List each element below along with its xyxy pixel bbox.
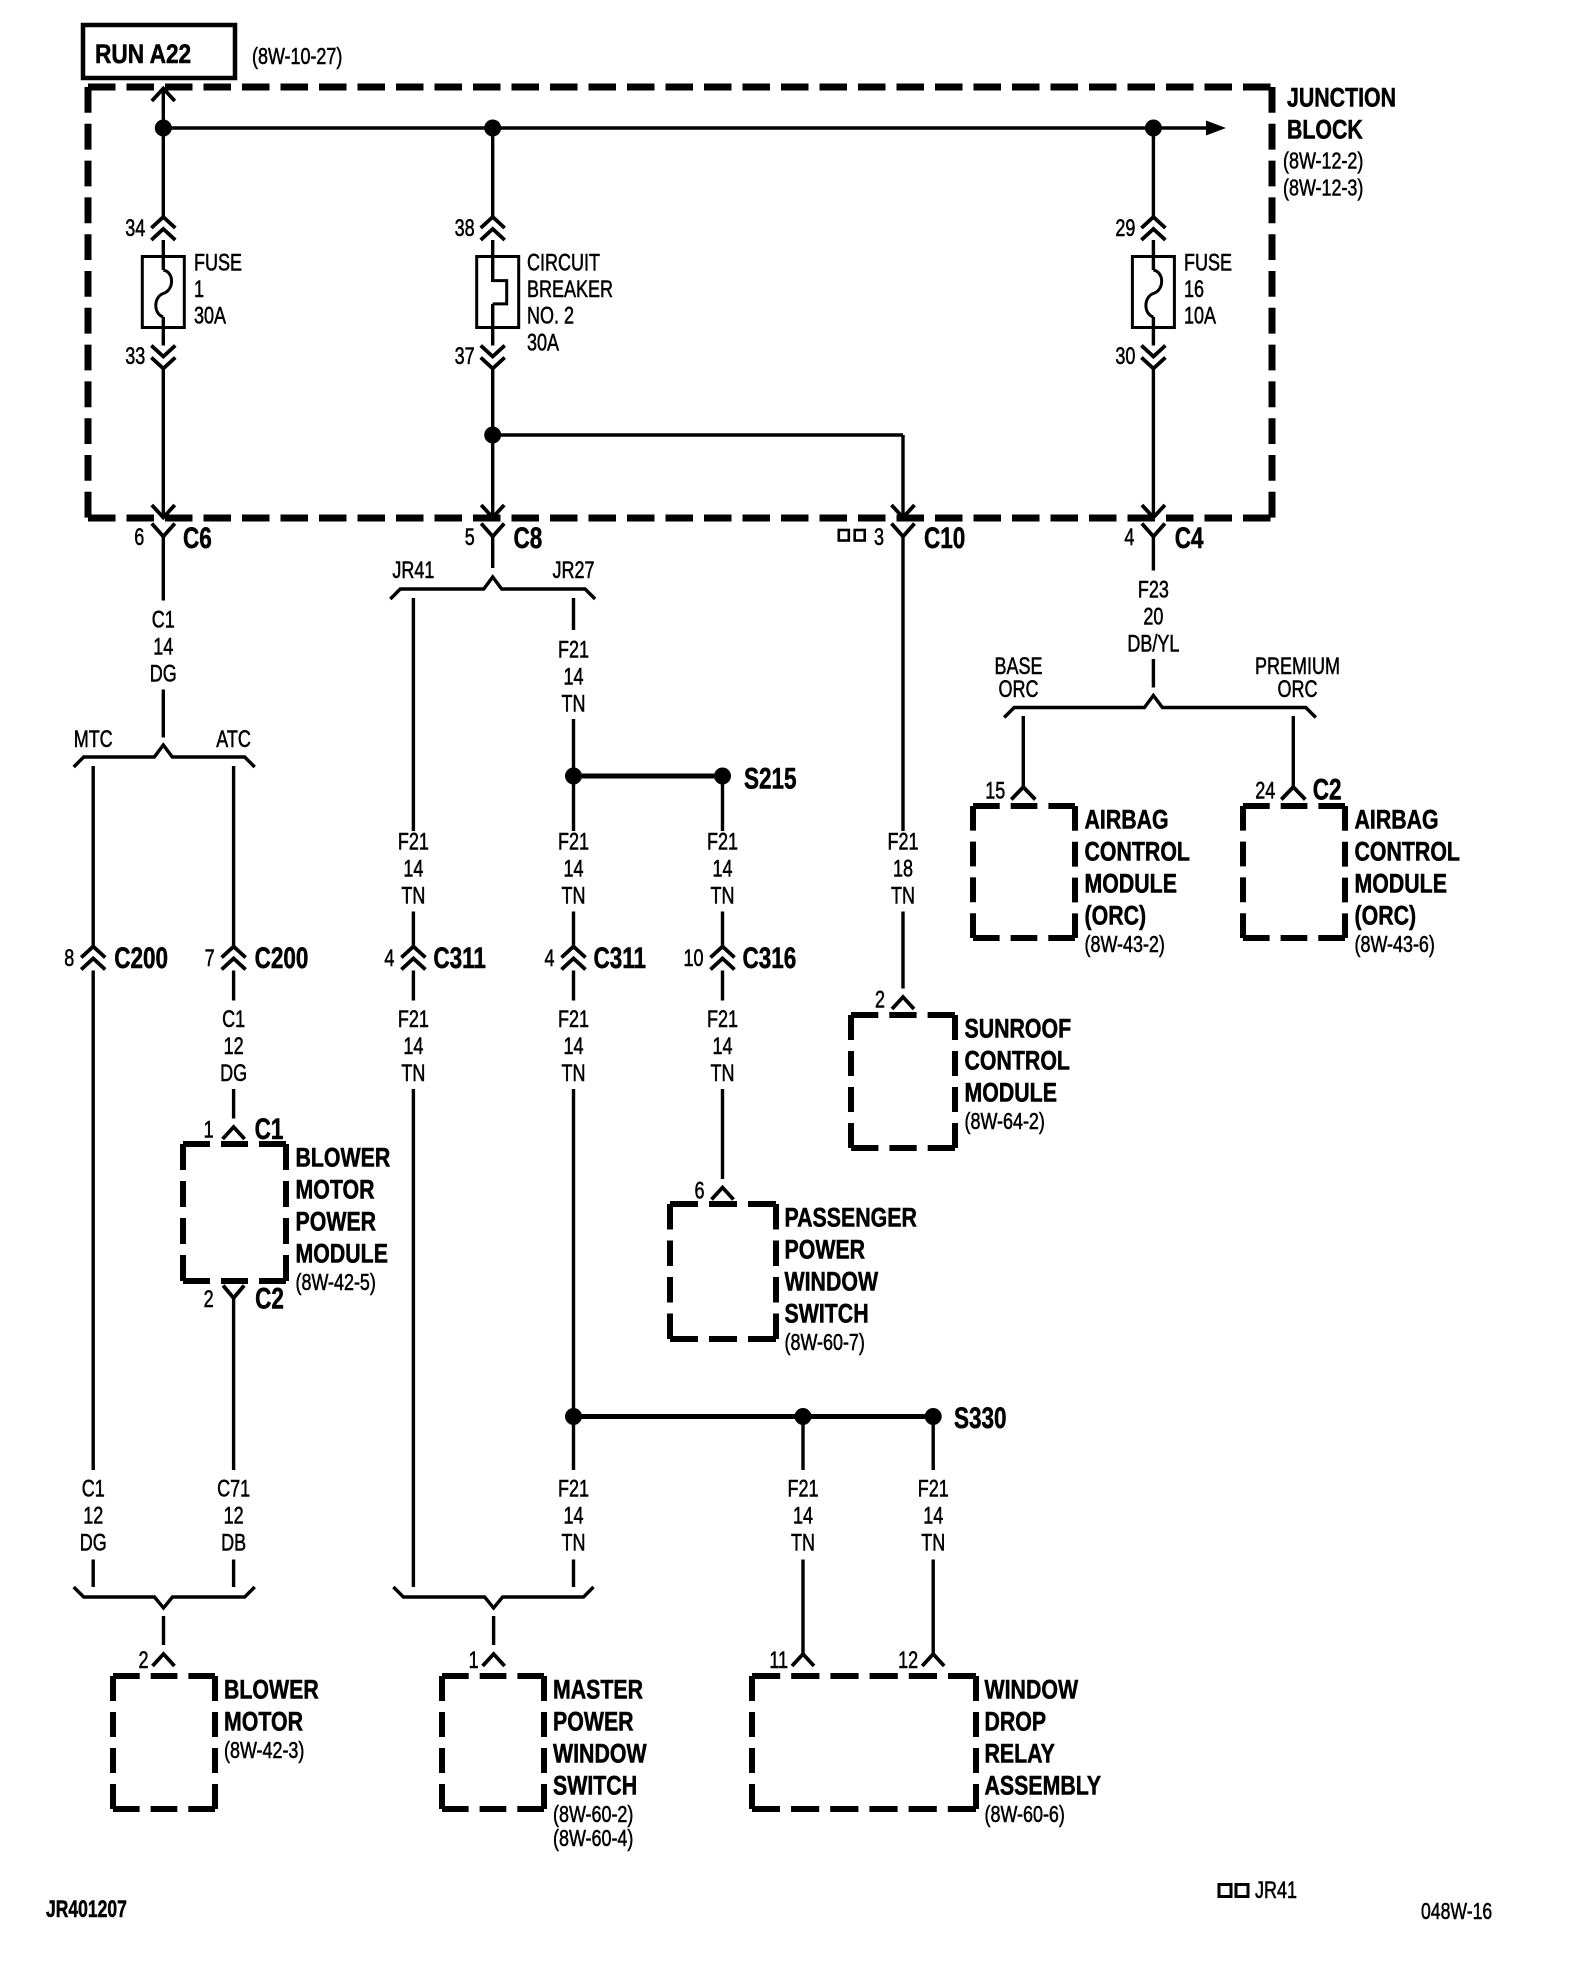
svg-text:(8W-10-27): (8W-10-27) bbox=[252, 44, 342, 70]
wire: bus to fuse 16 bbox=[1152, 128, 1155, 217]
wire below S215 left bbox=[572, 776, 575, 831]
svg-text:SWITCH: SWITCH bbox=[785, 1299, 869, 1329]
pin 2 into blower motor bbox=[153, 1654, 175, 1666]
JR41 legend bbox=[1219, 1885, 1248, 1897]
svg-text:8: 8 bbox=[64, 946, 74, 972]
wire below S330 left bbox=[572, 1417, 575, 1471]
label PREMIUM ORC bbox=[1255, 654, 1340, 703]
svg-text:(ORC): (ORC) bbox=[1085, 901, 1147, 931]
svg-text:30A: 30A bbox=[194, 303, 227, 329]
wire into master switch merge bbox=[572, 1560, 575, 1588]
svg-text:14: 14 bbox=[403, 856, 423, 882]
window drop relay assembly box bbox=[752, 1673, 976, 1679]
svg-text:14: 14 bbox=[563, 1503, 583, 1529]
svg-text:JR41: JR41 bbox=[392, 558, 434, 584]
label FUSE 1 30A bbox=[194, 250, 242, 329]
svg-text:3: 3 bbox=[874, 525, 884, 551]
wire down to splice S330 bbox=[572, 971, 575, 1001]
pin 1 into blower motor power module bbox=[223, 1127, 245, 1139]
svg-text:14: 14 bbox=[153, 634, 173, 660]
svg-text:TN: TN bbox=[562, 883, 586, 909]
wire to C311 (JR27) bbox=[572, 912, 575, 947]
svg-text:2: 2 bbox=[204, 1287, 214, 1313]
arrow into C4 bbox=[1142, 505, 1165, 518]
sunroof control module box bbox=[851, 1012, 955, 1018]
svg-text:TN: TN bbox=[401, 883, 425, 909]
svg-text:MASTER: MASTER bbox=[553, 1675, 643, 1705]
connector chevron C311 pin 4 bbox=[401, 947, 425, 958]
svg-text:14: 14 bbox=[712, 856, 732, 882]
svg-text:16: 16 bbox=[1184, 277, 1204, 303]
svg-text:MODULE: MODULE bbox=[1355, 869, 1447, 899]
svg-text:33: 33 bbox=[125, 344, 145, 370]
svg-text:POWER: POWER bbox=[785, 1235, 866, 1265]
wire: bus to fuse 1 bbox=[162, 128, 165, 217]
premium airbag control module box bbox=[1243, 803, 1345, 809]
svg-text:BLOCK: BLOCK bbox=[1287, 115, 1363, 145]
svg-text:POWER: POWER bbox=[553, 1707, 634, 1737]
split bracket BASE/PREMIUM ORC bbox=[1004, 696, 1316, 718]
connector chevron C200 pin 7 bbox=[222, 947, 246, 958]
connector C10 bbox=[892, 524, 915, 537]
svg-text:12: 12 bbox=[898, 1648, 918, 1674]
pin 15 into base airbag control module bbox=[1011, 787, 1035, 800]
svg-text:5: 5 bbox=[465, 525, 475, 551]
JR41 legend squares bbox=[839, 530, 865, 541]
cavity chevron 37 bbox=[481, 346, 505, 357]
svg-text:11: 11 bbox=[769, 1648, 788, 1674]
svg-text:34: 34 bbox=[125, 216, 145, 242]
svg-text:TN: TN bbox=[711, 883, 735, 909]
svg-text:2: 2 bbox=[138, 1648, 148, 1674]
svg-text:(8W-12-3): (8W-12-3) bbox=[1283, 175, 1363, 201]
passenger power window switch box bbox=[670, 1201, 776, 1207]
svg-text:6: 6 bbox=[694, 1178, 704, 1204]
pin 1 into master power window switch bbox=[483, 1654, 505, 1666]
svg-text:2: 2 bbox=[875, 987, 885, 1013]
wire merge to blower motor pin bbox=[162, 1616, 165, 1645]
svg-text:4: 4 bbox=[384, 946, 394, 972]
svg-text:C6: C6 bbox=[183, 521, 212, 555]
svg-text:AIRBAG: AIRBAG bbox=[1085, 805, 1169, 835]
svg-text:14: 14 bbox=[712, 1034, 732, 1060]
svg-text:MODULE: MODULE bbox=[1085, 869, 1177, 899]
circuit breaker no. 2 bbox=[477, 257, 519, 328]
svg-text:ASSEMBLY: ASSEMBLY bbox=[985, 1771, 1102, 1801]
svg-text:JUNCTION: JUNCTION bbox=[1287, 83, 1396, 113]
junction dot breaker branch bbox=[484, 427, 501, 444]
wire into circuit breaker bbox=[491, 240, 494, 282]
svg-text:24: 24 bbox=[1255, 778, 1275, 804]
wire merge to master switch pin bbox=[492, 1616, 495, 1645]
svg-text:F21: F21 bbox=[398, 1007, 429, 1033]
split bracket MTC/ATC bbox=[74, 745, 255, 767]
pin 12 into window drop relay assembly bbox=[922, 1654, 944, 1666]
svg-text:F21: F21 bbox=[558, 829, 589, 855]
svg-text:F21: F21 bbox=[398, 829, 429, 855]
wire JR27 branch bbox=[572, 598, 575, 630]
wire: branch to C10 bbox=[493, 433, 903, 436]
svg-text:10: 10 bbox=[683, 946, 703, 972]
svg-text:14: 14 bbox=[563, 664, 583, 690]
svg-text:JR401207: JR401207 bbox=[46, 1896, 127, 1922]
wire ATC branch bbox=[232, 766, 235, 947]
svg-text:CONTROL: CONTROL bbox=[1085, 837, 1191, 867]
master power window switch box bbox=[442, 1673, 544, 1679]
wire fuse 16 to connector C4 bbox=[1152, 369, 1155, 517]
junction dot at fuse 16 feed bbox=[1145, 120, 1162, 137]
wire MTC branch bbox=[91, 766, 94, 947]
svg-text:FUSE: FUSE bbox=[1184, 250, 1232, 276]
svg-text:C8: C8 bbox=[514, 521, 543, 555]
wire below fuse 1 bbox=[162, 317, 165, 346]
cavity chevron 34 bbox=[151, 217, 175, 228]
svg-text:CONTROL: CONTROL bbox=[1355, 837, 1461, 867]
svg-text:SWITCH: SWITCH bbox=[553, 1771, 637, 1801]
svg-text:MOTOR: MOTOR bbox=[224, 1707, 303, 1737]
wire into fuse 1 bbox=[162, 240, 165, 270]
svg-text:PASSENGER: PASSENGER bbox=[785, 1203, 918, 1233]
wire to ORC split bbox=[1152, 659, 1155, 688]
svg-text:(8W-60-4): (8W-60-4) bbox=[553, 1826, 633, 1852]
svg-text:1: 1 bbox=[204, 1117, 214, 1143]
svg-text:F21: F21 bbox=[558, 1007, 589, 1033]
svg-text:4: 4 bbox=[1124, 525, 1134, 551]
svg-text:ORC: ORC bbox=[1278, 677, 1318, 703]
svg-text:ORC: ORC bbox=[999, 677, 1039, 703]
svg-text:S215: S215 bbox=[744, 761, 797, 795]
arrowhead at bus right end bbox=[1206, 121, 1226, 136]
svg-text:DB: DB bbox=[221, 1530, 246, 1556]
cavity chevron 33 bbox=[151, 346, 175, 357]
pin 6 into passenger power window switch bbox=[712, 1188, 734, 1200]
connector C2 below module bbox=[223, 1286, 244, 1299]
label BASE ORC bbox=[994, 654, 1042, 703]
wire to C316 bbox=[721, 912, 724, 947]
svg-text:30A: 30A bbox=[527, 330, 560, 356]
connector C4 bbox=[1142, 524, 1165, 537]
svg-text:TN: TN bbox=[562, 1530, 586, 1556]
svg-text:WINDOW: WINDOW bbox=[985, 1675, 1079, 1705]
blower motor box bbox=[113, 1673, 215, 1679]
power feed box RUN A22 bbox=[83, 25, 235, 78]
svg-text:TN: TN bbox=[562, 691, 586, 717]
svg-text:MTC: MTC bbox=[74, 727, 113, 753]
wire ATC to blower motor power module bbox=[232, 971, 235, 1001]
svg-text:C10: C10 bbox=[924, 521, 965, 555]
svg-text:C1: C1 bbox=[152, 607, 175, 633]
wire to relay pin 12 bbox=[932, 1560, 935, 1655]
svg-text:DG: DG bbox=[80, 1530, 107, 1556]
cavity chevron 38 bbox=[481, 217, 505, 228]
svg-text:BLOWER: BLOWER bbox=[296, 1143, 391, 1173]
svg-text:DG: DG bbox=[220, 1061, 247, 1087]
wire down to C10 bbox=[901, 435, 904, 516]
svg-text:RUN A22: RUN A22 bbox=[95, 39, 191, 69]
svg-text:C1: C1 bbox=[255, 1112, 284, 1146]
wire JR41 to master switch merge bbox=[412, 971, 415, 1001]
wire into blower merge (right) bbox=[232, 1560, 235, 1588]
wire below C8 bbox=[491, 537, 494, 569]
svg-text:DB/YL: DB/YL bbox=[1127, 631, 1179, 657]
wire into fuse 16 bbox=[1152, 240, 1155, 270]
svg-text:12: 12 bbox=[83, 1503, 103, 1529]
arrow into C10 bbox=[892, 505, 915, 518]
svg-text:F21: F21 bbox=[558, 637, 589, 663]
junction block dashed border bbox=[88, 87, 1272, 518]
svg-text:BLOWER: BLOWER bbox=[224, 1675, 319, 1705]
svg-text:RELAY: RELAY bbox=[985, 1739, 1055, 1769]
svg-text:12: 12 bbox=[224, 1034, 244, 1060]
merge bracket master switch bbox=[393, 1587, 593, 1608]
wire below C10 bbox=[901, 537, 904, 832]
arrow up to RUN A22 feed bbox=[152, 89, 175, 129]
wire below S215 right bbox=[721, 776, 724, 831]
wire to C311 (JR41) bbox=[412, 912, 415, 947]
wire to sunroof module bbox=[901, 912, 904, 989]
svg-text:30: 30 bbox=[1115, 344, 1135, 370]
pin 11 into window drop relay assembly bbox=[792, 1654, 814, 1666]
svg-text:JR27: JR27 bbox=[552, 558, 594, 584]
arrow into C6 bbox=[152, 505, 175, 518]
svg-text:(8W-64-2): (8W-64-2) bbox=[965, 1109, 1045, 1135]
svg-text:(ORC): (ORC) bbox=[1355, 901, 1417, 931]
svg-text:15: 15 bbox=[985, 778, 1005, 804]
label FUSE 16 10A bbox=[1184, 250, 1232, 329]
connector chevron C200 pin 8 bbox=[81, 947, 105, 958]
fuse F16 bbox=[1132, 257, 1174, 328]
svg-text:14: 14 bbox=[403, 1034, 423, 1060]
svg-text:F23: F23 bbox=[1138, 577, 1169, 603]
svg-text:TN: TN bbox=[791, 1530, 815, 1556]
merge bracket blower motor bbox=[74, 1587, 255, 1608]
svg-text:ATC: ATC bbox=[216, 727, 251, 753]
svg-text:AIRBAG: AIRBAG bbox=[1355, 805, 1439, 835]
svg-text:F21: F21 bbox=[918, 1476, 949, 1502]
svg-text:(8W-43-6): (8W-43-6) bbox=[1355, 932, 1435, 958]
svg-text:(8W-42-5): (8W-42-5) bbox=[296, 1270, 376, 1296]
wire: bus to circuit breaker bbox=[491, 128, 494, 217]
wire MTC blower feed bbox=[91, 971, 94, 1471]
connector C8 bbox=[481, 524, 504, 537]
svg-text:38: 38 bbox=[455, 216, 475, 242]
svg-text:(8W-60-6): (8W-60-6) bbox=[985, 1802, 1065, 1828]
svg-text:WINDOW: WINDOW bbox=[553, 1739, 647, 1769]
svg-text:MODULE: MODULE bbox=[296, 1239, 388, 1269]
svg-text:C311: C311 bbox=[433, 941, 486, 975]
svg-text:14: 14 bbox=[563, 1034, 583, 1060]
connector chevron C316 pin 10 bbox=[711, 947, 735, 958]
svg-text:SUNROOF: SUNROOF bbox=[965, 1014, 1072, 1044]
svg-text:048W-16: 048W-16 bbox=[1421, 1899, 1492, 1925]
wire premium ORC branch bbox=[1292, 716, 1295, 787]
svg-text:10A: 10A bbox=[1184, 303, 1217, 329]
svg-text:TN: TN bbox=[401, 1061, 425, 1087]
svg-text:C2: C2 bbox=[1313, 772, 1342, 806]
svg-text:C1: C1 bbox=[222, 1007, 245, 1033]
wire to passenger switch bbox=[721, 971, 724, 1001]
junction dot at fuse 1 feed bbox=[155, 120, 172, 137]
svg-text:DG: DG bbox=[150, 661, 177, 687]
svg-text:DROP: DROP bbox=[985, 1707, 1047, 1737]
svg-text:FUSE: FUSE bbox=[194, 250, 242, 276]
wire below C6 bbox=[162, 537, 165, 601]
wire fuse 1 to connector C6 bbox=[162, 369, 165, 517]
pin 24 into premium airbag control module bbox=[1281, 787, 1305, 800]
svg-text:CIRCUIT: CIRCUIT bbox=[527, 250, 600, 276]
svg-text:C200: C200 bbox=[114, 941, 168, 975]
svg-text:MOTOR: MOTOR bbox=[296, 1175, 375, 1205]
wire to MTC/ATC split bbox=[162, 690, 165, 738]
svg-text:C1: C1 bbox=[82, 1476, 105, 1502]
wire below C2 bbox=[232, 1298, 235, 1470]
svg-text:MODULE: MODULE bbox=[965, 1078, 1057, 1108]
junction dot at circuit breaker feed bbox=[484, 120, 501, 137]
svg-text:F21: F21 bbox=[787, 1476, 818, 1502]
svg-text:NO. 2: NO. 2 bbox=[527, 303, 574, 329]
cavity chevron 29 bbox=[1141, 217, 1165, 228]
wire base ORC branch bbox=[1022, 716, 1025, 787]
svg-text:F21: F21 bbox=[707, 1007, 738, 1033]
svg-text:14: 14 bbox=[923, 1503, 943, 1529]
svg-text:C316: C316 bbox=[743, 941, 797, 975]
blower motor power module box bbox=[183, 1141, 286, 1147]
svg-text:18: 18 bbox=[893, 856, 913, 882]
svg-text:POWER: POWER bbox=[296, 1207, 377, 1237]
wire S330 branch 12 bbox=[932, 1417, 935, 1471]
wire to relay pin 11 bbox=[801, 1560, 804, 1655]
svg-text:6: 6 bbox=[134, 525, 144, 551]
svg-text:(8W-43-2): (8W-43-2) bbox=[1085, 932, 1165, 958]
splice S215 bbox=[565, 768, 731, 785]
wire into blower merge bbox=[91, 1560, 94, 1588]
connector chevron C311 pin 4 bbox=[562, 947, 586, 958]
junction block label bbox=[1283, 83, 1396, 201]
svg-text:12: 12 bbox=[224, 1503, 244, 1529]
svg-text:TN: TN bbox=[562, 1061, 586, 1087]
svg-text:4: 4 bbox=[544, 946, 554, 972]
svg-text:TN: TN bbox=[921, 1530, 945, 1556]
connector C6 bbox=[152, 524, 175, 537]
svg-text:C2: C2 bbox=[255, 1281, 284, 1315]
svg-text:JR41: JR41 bbox=[1255, 1878, 1297, 1904]
svg-text:C4: C4 bbox=[1175, 521, 1204, 555]
svg-text:S330: S330 bbox=[954, 1401, 1007, 1435]
wire S330 branch 11 bbox=[801, 1417, 804, 1471]
svg-text:20: 20 bbox=[1143, 604, 1163, 630]
cavity chevron 30 bbox=[1141, 346, 1165, 357]
svg-text:C311: C311 bbox=[594, 941, 647, 975]
wire JR41 branch bbox=[412, 598, 415, 831]
svg-text:1: 1 bbox=[194, 277, 204, 303]
svg-text:F21: F21 bbox=[707, 829, 738, 855]
base airbag control module box bbox=[973, 803, 1075, 809]
svg-text:(8W-60-7): (8W-60-7) bbox=[785, 1330, 865, 1356]
wire below fuse 16 bbox=[1152, 317, 1155, 346]
wire: feed bus inside junction block bbox=[163, 126, 1207, 129]
svg-text:TN: TN bbox=[711, 1061, 735, 1087]
wire breaker to connector C8 bbox=[491, 369, 494, 517]
svg-text:(8W-42-3): (8W-42-3) bbox=[224, 1738, 304, 1764]
arrow into C8 bbox=[481, 505, 504, 518]
svg-text:7: 7 bbox=[205, 946, 215, 972]
svg-text:14: 14 bbox=[563, 856, 583, 882]
wire to splice S215 bbox=[572, 719, 575, 776]
svg-text:WINDOW: WINDOW bbox=[785, 1267, 879, 1297]
wire below circuit breaker bbox=[491, 304, 494, 346]
splice S330 bbox=[565, 1408, 942, 1425]
svg-text:F21: F21 bbox=[558, 1476, 589, 1502]
wire below C4 bbox=[1152, 537, 1155, 571]
svg-text:(8W-12-2): (8W-12-2) bbox=[1283, 148, 1363, 174]
svg-text:C200: C200 bbox=[255, 941, 309, 975]
svg-text:29: 29 bbox=[1115, 216, 1135, 242]
svg-text:F21: F21 bbox=[887, 829, 918, 855]
svg-text:14: 14 bbox=[793, 1503, 813, 1529]
fuse F1 bbox=[142, 257, 184, 328]
svg-text:BREAKER: BREAKER bbox=[527, 277, 613, 303]
svg-text:CONTROL: CONTROL bbox=[965, 1046, 1071, 1076]
svg-text:TN: TN bbox=[891, 883, 915, 909]
label CIRCUIT BREAKER NO. 2 30A bbox=[527, 250, 613, 356]
split bracket JR41/JR27 bbox=[390, 577, 595, 599]
svg-text:(8W-60-2): (8W-60-2) bbox=[553, 1802, 633, 1828]
pin 2 into sunroof control module bbox=[892, 997, 914, 1009]
svg-text:37: 37 bbox=[455, 344, 475, 370]
svg-text:C71: C71 bbox=[217, 1476, 250, 1502]
svg-text:1: 1 bbox=[469, 1648, 479, 1674]
